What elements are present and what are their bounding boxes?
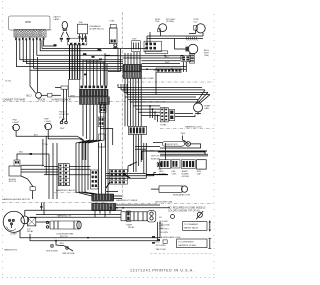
evap fan motor [194, 103, 203, 112]
svg-text:TO ICEMAKER: TO ICEMAKER [184, 223, 199, 226]
separator cabinet/door [3, 101, 81, 103]
door 2-pin connector [61, 86, 68, 89]
wires to evap fan [118, 87, 202, 89]
svg-text:12171241 PRINTED IN U.S.A.: 12171241 PRINTED IN U.S.A. [130, 269, 194, 273]
cabinet top connector block [80, 86, 110, 105]
page border right [213, 14, 215, 278]
svg-text:LIGHT: LIGHT [45, 121, 52, 123]
right cell connector [189, 54, 194, 64]
horizontal wires to right section [125, 96, 196, 98]
thermal fuse [186, 142, 191, 147]
ctrl thermostat [110, 24, 116, 28]
svg-text:ICEMAKER: ICEMAKER [89, 25, 101, 28]
mid component right of ctrl [132, 41, 141, 52]
connector strip CT-D [156, 68, 181, 73]
wires into strip from left [44, 165, 58, 167]
junction verticals with dots [149, 106, 151, 118]
svg-text:CAB GROUND: CAB GROUND [62, 252, 75, 255]
lamp lead labels WHT [60, 38, 70, 40]
tstat grid A [160, 108, 168, 122]
svg-text:GRN 18GA: GRN 18GA [159, 224, 170, 227]
svg-text:MOTOR: MOTOR [9, 181, 17, 183]
condenser fan motor [50, 221, 79, 229]
compressor [3, 211, 24, 232]
svg-text:GRN SCREW CAB: GRN SCREW CAB [155, 201, 173, 204]
svg-text:DEF CKT: DEF CKT [151, 155, 160, 157]
door lower connectors [100, 102, 107, 107]
verticals from ctrl area into connector [124, 53, 126, 64]
svg-text:AUG: AUG [204, 49, 209, 52]
svg-text:(SOME): (SOME) [166, 21, 174, 23]
svg-text:SW: SW [158, 169, 161, 171]
cavity lamp [62, 21, 67, 29]
svg-text:RED ORG: RED ORG [159, 228, 169, 230]
svg-text:18 GA: 18 GA [5, 80, 11, 83]
control board WPB [9, 16, 51, 30]
svg-text:(SOME MDLS): (SOME MDLS) [89, 29, 104, 31]
harness connector strip pair bottom [92, 194, 114, 201]
bottom long wires [20, 230, 160, 238]
svg-text:FAN: FAN [205, 107, 210, 110]
wire labels near relay drop [152, 236, 160, 244]
connector J1 strip [14, 30, 46, 38]
svg-text:HARNESS-CT-LINER: HARNESS-CT-LINER [116, 199, 138, 202]
svg-text:HARNESS (SOME): HARNESS (SOME) [178, 244, 196, 247]
svg-text:NO. REQUIRED IN SOME MODELS: NO. REQUIRED IN SOME MODELS [168, 207, 206, 209]
auger motor circle [188, 44, 198, 54]
dashed vertical door boundary [121, 12, 123, 200]
svg-text:COLORS SHOWN TYP OF ALL: COLORS SHOWN TYP OF ALL [168, 209, 201, 212]
strip right-side links [69, 165, 90, 167]
svg-text:BLK: BLK [165, 56, 169, 58]
svg-text:RELAY: RELAY [27, 230, 34, 233]
wire color ticks under J1 [15, 38, 44, 41]
icemaker leads [79, 34, 81, 42]
svg-text:TSTAT: TSTAT [160, 124, 167, 127]
2x2 connector right [181, 55, 191, 61]
svg-text:RELAY: RELAY [128, 226, 135, 229]
svg-text:COMP: COMP [10, 234, 17, 236]
svg-text:CAP: CAP [197, 172, 202, 175]
svg-text:TO DISPENSER: TO DISPENSER [178, 242, 194, 244]
svg-text:HARNESS-T W: HARNESS-T W [57, 215, 71, 218]
main connector pair mid [123, 64, 142, 78]
svg-text:CABINET TOP WHR: CABINET TOP WHR [3, 99, 25, 102]
aux valve component [14, 160, 20, 166]
svg-text:HARNESS-CAB WG: HARNESS-CAB WG [56, 189, 76, 192]
three horizontals crossing [106, 172, 146, 174]
legend bottom dashed rule [150, 253, 213, 255]
connector J1 pins row1 [15, 31, 45, 37]
mid-right wire runs [105, 55, 184, 57]
wire to ctrl [104, 53, 106, 101]
svg-text:HARNESS-CNTL: HARNESS-CNTL [185, 126, 203, 129]
svg-text:WATER VALVE: WATER VALVE [184, 227, 199, 230]
svg-text:GRN SCREW: GRN SCREW [46, 250, 58, 252]
svg-text:BLK: BLK [34, 135, 39, 137]
thin bar component [145, 51, 168, 54]
svg-text:CTRL: CTRL [109, 21, 115, 23]
svg-text:HARNESS-PG: HARNESS-PG [4, 248, 18, 251]
fuse arrow [197, 212, 202, 217]
defrost heater [163, 142, 185, 147]
ground branch [56, 241, 73, 251]
svg-text:LAMP: LAMP [54, 18, 60, 21]
tstat box B [169, 109, 175, 120]
bold line wire [142, 151, 207, 160]
legend box 2 [177, 239, 207, 248]
verticals mid-left [42, 139, 44, 167]
verticals right of bundle [82, 60, 84, 86]
ref light [45, 123, 52, 130]
svg-text:TNK: TNK [155, 21, 160, 23]
verticals below connector pair [124, 78, 126, 126]
horizontals feeding those verticals [83, 59, 101, 61]
svg-text:(SOME): (SOME) [182, 176, 190, 178]
terminal strip left-mid [58, 164, 69, 186]
svg-text:YEL BRN: YEL BRN [159, 232, 168, 234]
svg-text:BLU: BLU [156, 242, 160, 244]
wire fan from J1 [16, 40, 123, 66]
J2 connector strip [129, 126, 147, 134]
ground screw symbols [50, 244, 68, 249]
run capacitor [159, 186, 182, 192]
svg-text:BLU: BLU [27, 94, 32, 98]
svg-text:WB: WB [79, 22, 83, 24]
freezer light [13, 124, 20, 131]
svg-text:BLK WHT: BLK WHT [159, 221, 169, 223]
legend left col small text [171, 215, 175, 219]
svg-text:LIGHT: LIGHT [13, 122, 20, 124]
svg-text:WHT: WHT [70, 95, 76, 97]
verticals below cab connector [82, 104, 84, 136]
svg-text:BLK: BLK [19, 152, 24, 154]
page border left [2, 1, 4, 278]
svg-text:DSP: DSP [132, 39, 137, 41]
page border bottom [2, 277, 216, 279]
svg-text:HARNESS-DOOR: HARNESS-DOOR [52, 99, 72, 102]
svg-text:WHT: WHT [165, 62, 170, 64]
svg-text:DEFROST HTR: DEFROST HTR [164, 144, 178, 146]
light wires [16, 131, 83, 160]
svg-text:VLV: VLV [194, 21, 199, 23]
svg-text:HARNESS-AUGER MOTOR: HARNESS-AUGER MOTOR [2, 198, 30, 201]
start device [121, 212, 147, 221]
svg-text:V TRE: V TRE [42, 144, 49, 146]
wires from strips to right [116, 204, 160, 206]
svg-text:BLK: BLK [60, 243, 65, 245]
svg-text:(2): (2) [59, 117, 62, 119]
svg-text:HARNESS-REF LINER: HARNESS-REF LINER [131, 77, 154, 80]
svg-text:WPB: WPB [25, 20, 31, 24]
side terminal element [91, 170, 99, 189]
defrost switch diagonal [128, 162, 137, 166]
svg-text:DEF: DEF [181, 133, 186, 135]
door harness bundle [69, 45, 71, 80]
svg-text:DOOR: DOOR [38, 99, 45, 102]
svg-text:TAN CODE: TAN CODE [156, 248, 167, 251]
svg-text:BI-METAL: BI-METAL [151, 157, 161, 160]
connector block top-right-left [144, 41, 162, 51]
connector J1 pins row2 [15, 34, 17, 36]
legend box 1 [183, 222, 208, 231]
CT connector grid [110, 169, 128, 184]
svg-text:(SM): (SM) [204, 55, 209, 57]
svg-text:BLK: BLK [48, 29, 53, 31]
relay block row [159, 160, 170, 169]
ptc relay [28, 218, 36, 226]
WTR TNK lamp [159, 24, 167, 32]
svg-text:CNTL: CNTL [171, 173, 177, 175]
door top junction box [68, 38, 87, 45]
BLU bulb [36, 92, 42, 98]
defrost circuit cluster [133, 135, 135, 173]
svg-text:WHT: WHT [60, 128, 65, 130]
icemaker box WB [78, 24, 88, 34]
svg-text:GRY WIRE: GRY WIRE [156, 245, 167, 247]
svg-text:CAPACITOR: CAPACITOR [178, 194, 191, 197]
top-right rails [147, 35, 203, 37]
water valve WV [196, 24, 205, 33]
legend left col 2 [163, 240, 167, 244]
wire verticals to BLU bulb [36, 57, 38, 92]
heater ticks [186, 37, 197, 41]
door interface box [68, 79, 79, 97]
converge diagonals to connector [21, 176, 33, 187]
